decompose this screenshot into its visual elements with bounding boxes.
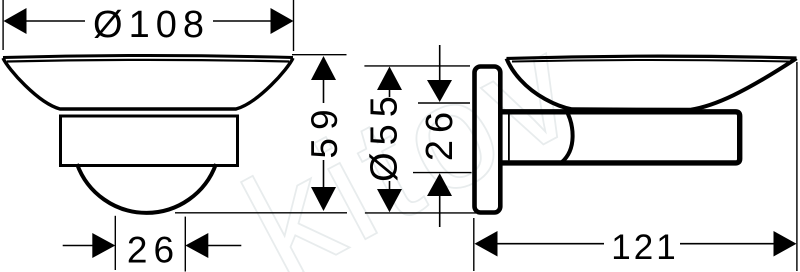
dim 26 side: bottom tick: [413, 172, 472, 174]
dim Ø55: dimension line upper segment: [389, 89, 391, 97]
side view: dish bowl underside: [507, 58, 797, 110]
svg-text:59: 59: [304, 101, 345, 158]
dim 59: dimension line upper segment: [323, 79, 325, 103]
side view: collar joint line: [508, 115, 510, 161]
dim 26 side: top down arrow: [427, 80, 452, 102]
dim 26 side: lower line below arrow: [439, 196, 441, 227]
dim Ø108: dimension line right segment: [213, 20, 271, 22]
dim 59: top reference line: [292, 54, 347, 56]
dim 59: top arrow: [311, 56, 336, 80]
dim Ø108: dimension line left segment: [26, 20, 85, 22]
dim 26 front: right tail line: [208, 245, 241, 247]
side view: dish rim outer line: [507, 56, 797, 58]
dim 26 front: right arrow: [185, 233, 208, 258]
svg-text:Ø108: Ø108: [93, 4, 210, 46]
dim 26 front: right extension line: [184, 217, 186, 272]
dim 26 front: left arrow: [92, 233, 115, 258]
dim 121: left arrow: [475, 231, 498, 257]
front view: dish top rim inner line: [7, 60, 289, 62]
dim 26 side: bottom up arrow: [427, 173, 452, 196]
dim Ø55: top reference line: [364, 65, 470, 67]
dim Ø108: right extension line: [293, 0, 295, 51]
dim 121: right arrow: [774, 231, 797, 257]
dim 59: dimension line lower segment: [323, 160, 325, 188]
dim 26 side: upper line above arrow: [439, 45, 441, 80]
front view: dish bowl underside: [3, 58, 293, 109]
front view: dish top rim outer line: [3, 56, 293, 58]
dim Ø55: bottom arrow: [377, 189, 402, 212]
svg-text:26: 26: [419, 105, 461, 161]
dim Ø55: bottom reference line: [365, 212, 476, 214]
side view: stem curve: [562, 110, 573, 163]
dim 121: right extension line: [796, 62, 798, 271]
dim Ø55: dimension line lower segment: [389, 181, 391, 190]
dim 59: bottom arrow: [311, 187, 336, 211]
side view: dish rim inner line: [512, 60, 789, 62]
dim 26 front: left tail line: [63, 245, 93, 247]
dim 121: dimension line left segment: [497, 243, 604, 245]
front view: ground baseline: [175, 212, 347, 214]
dim Ø108: right arrow: [271, 8, 294, 34]
dim Ø108: left extension line: [2, 0, 4, 50]
dim 26 side: top tick: [418, 102, 470, 104]
svg-text:Ø55: Ø55: [364, 89, 406, 182]
side view: arm: [501, 112, 740, 163]
side view: wall plate: [475, 67, 501, 213]
front view: wall disc bottom arc: [77, 164, 216, 213]
dim 26 front: left extension line: [114, 216, 116, 270]
dim Ø108: left arrow: [4, 8, 27, 34]
dim 121: dimension line right segment: [680, 243, 775, 245]
dim Ø55: top arrow: [377, 67, 402, 91]
svg-text:26: 26: [127, 230, 180, 271]
front view: stem rectangle: [61, 116, 238, 166]
svg-text:121: 121: [611, 228, 678, 267]
dim 121: left extension line: [473, 218, 475, 271]
